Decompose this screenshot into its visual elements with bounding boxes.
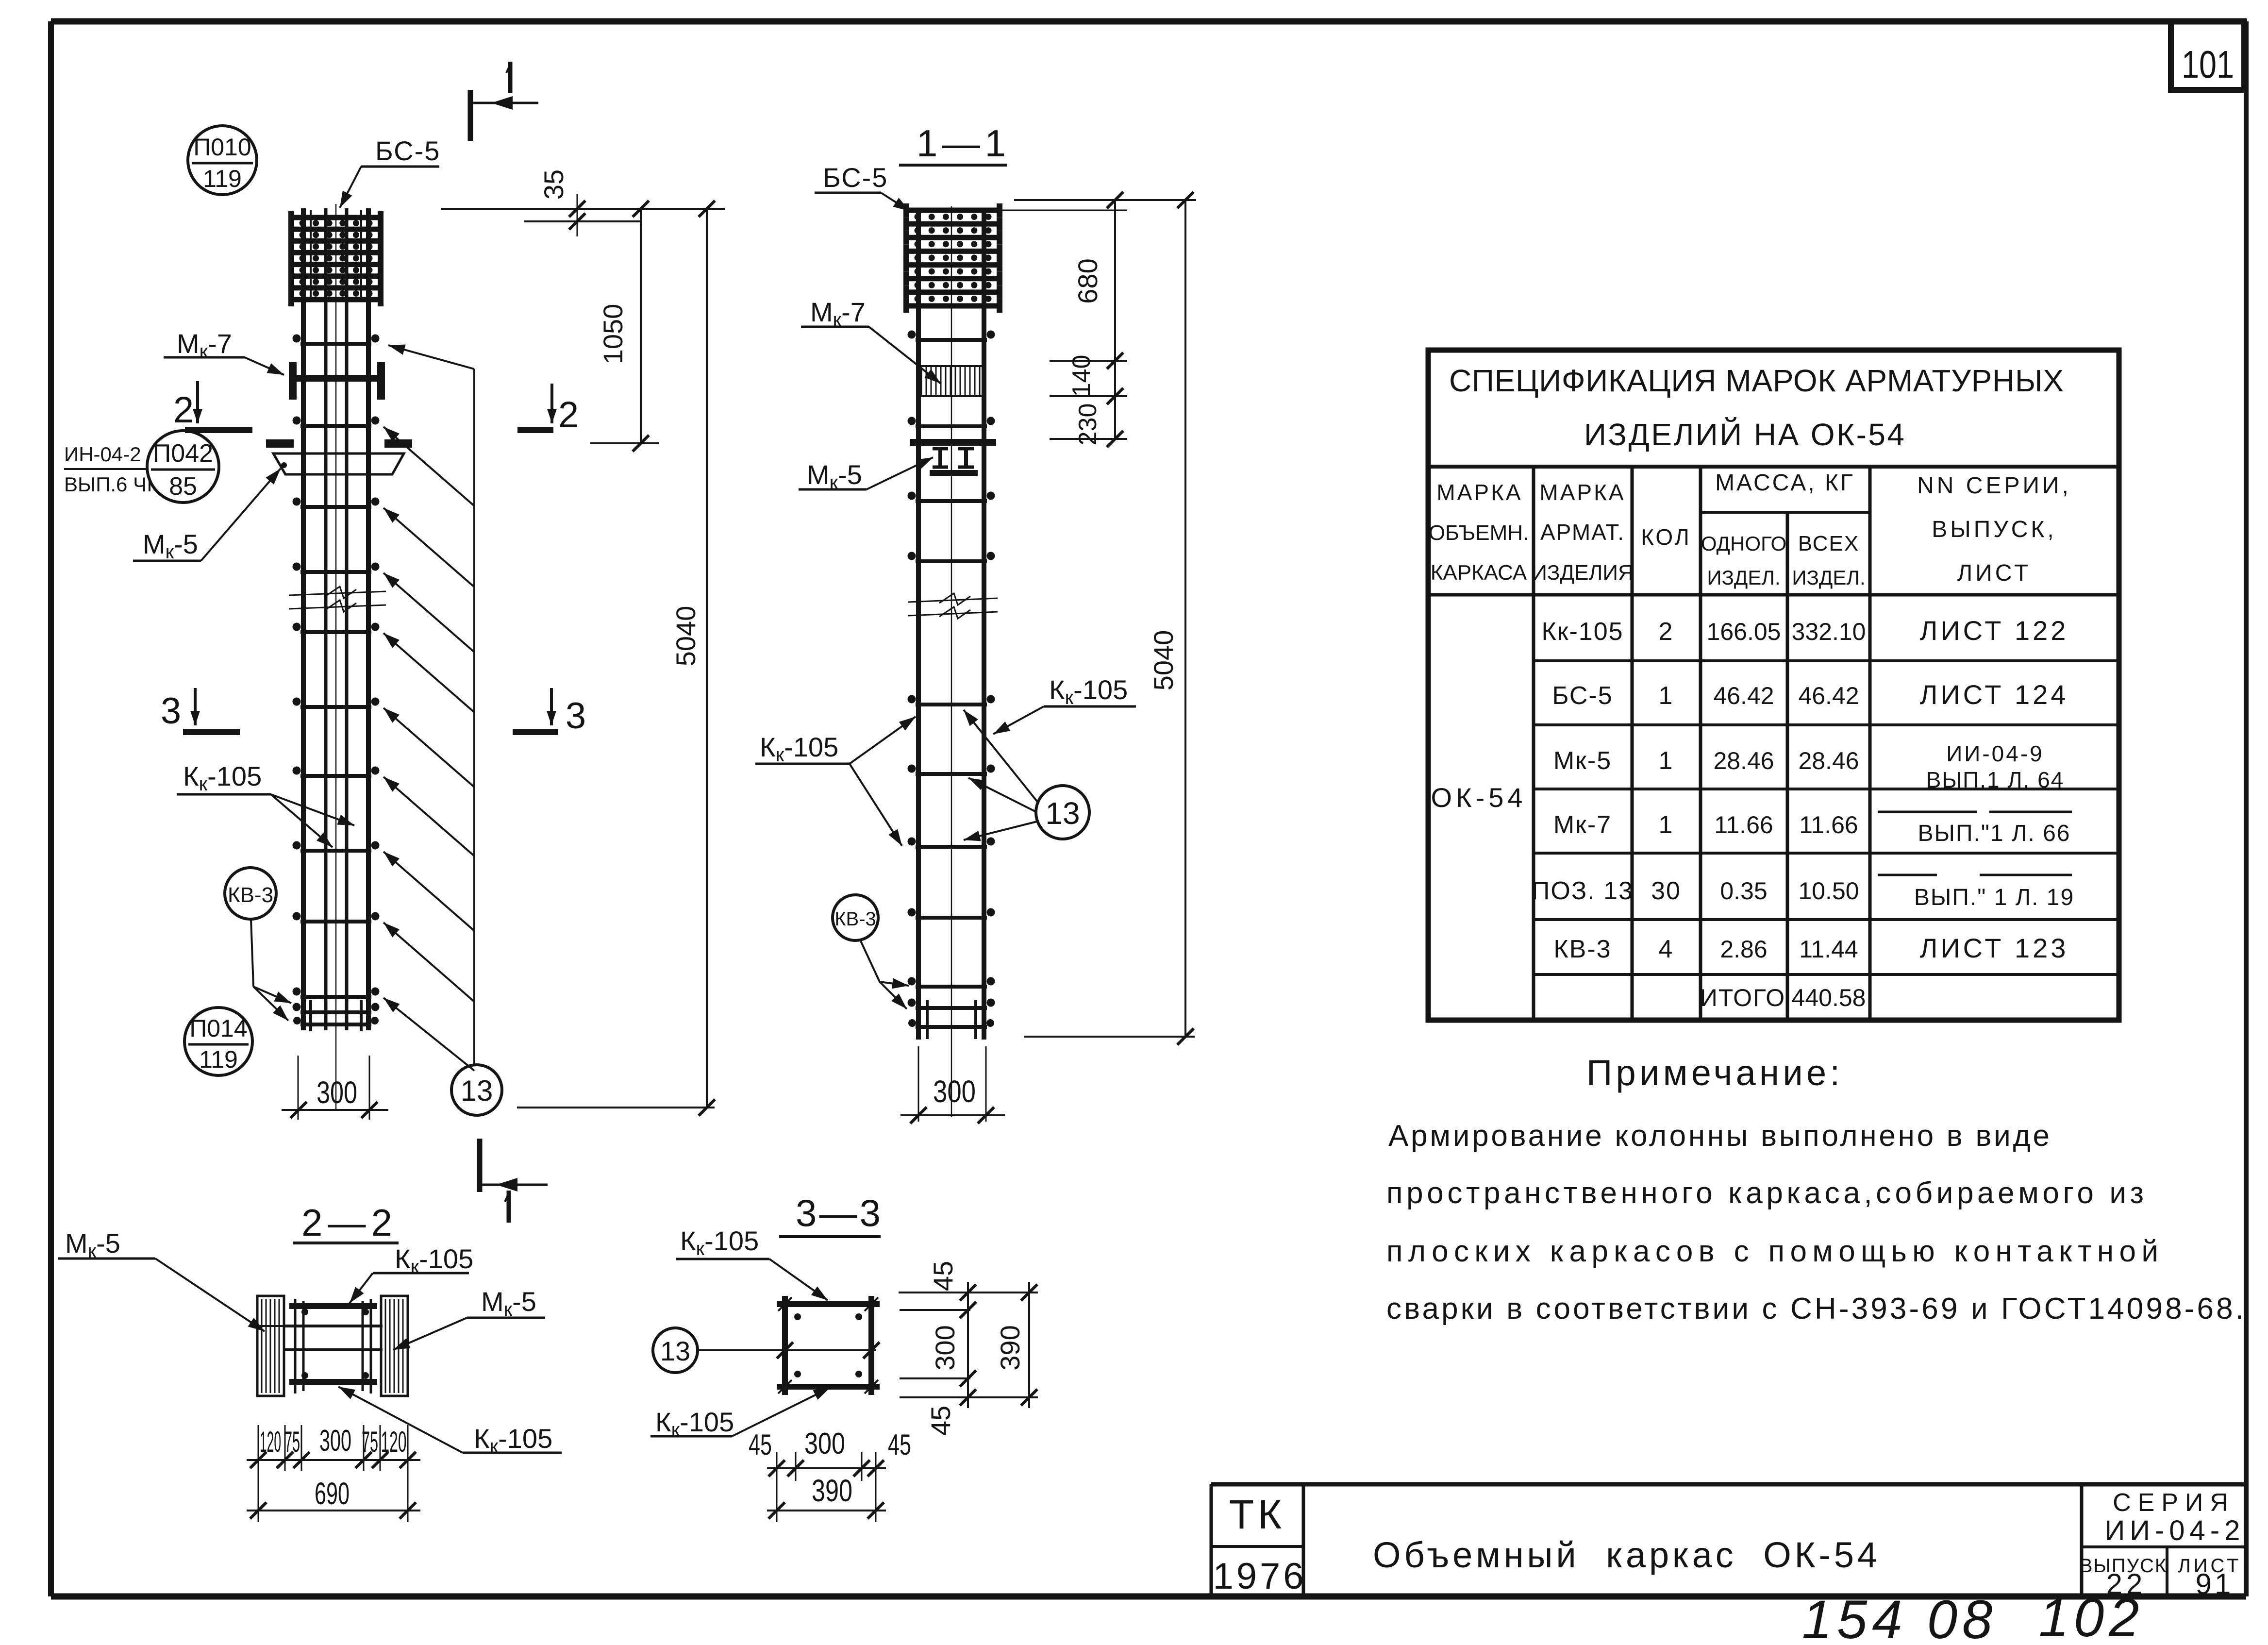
- svg-text:102: 102: [2039, 1587, 2144, 1645]
- svg-text:ЛИСТ 124: ЛИСТ 124: [1920, 679, 2069, 710]
- svg-text:Кк-105: Кк-105: [760, 732, 838, 766]
- svg-text:пространственного каркаса,соб: пространственного каркаса,собираемого из: [1386, 1176, 2148, 1210]
- svg-text:БС-5: БС-5: [375, 135, 440, 166]
- svg-text:Мк-7: Мк-7: [1553, 811, 1612, 839]
- svg-text:сварки в соответствии с СН: сварки в соответствии с СН-393-69 и ГОСТ…: [1386, 1292, 2247, 1326]
- svg-text:ЛИСТ 123: ЛИСТ 123: [1920, 933, 2069, 963]
- svg-text:ТК: ТК: [1229, 1492, 1285, 1537]
- svg-text:0.35: 0.35: [1720, 877, 1767, 905]
- svg-text:300: 300: [930, 1325, 960, 1370]
- svg-text:35: 35: [538, 169, 569, 200]
- svg-text:МАРКА: МАРКА: [1539, 480, 1625, 505]
- svg-text:5040: 5040: [670, 606, 701, 667]
- svg-text:П010: П010: [193, 134, 251, 161]
- svg-text:2: 2: [558, 394, 579, 436]
- svg-text:П042: П042: [153, 439, 213, 468]
- svg-text:Кк-105: Кк-105: [1049, 674, 1128, 708]
- svg-text:45: 45: [888, 1428, 911, 1461]
- svg-text:ВЫПУСК,: ВЫПУСК,: [1932, 517, 2056, 542]
- svg-text:Армирование колонны выполнен: Армирование колонны выполнено в виде: [1388, 1119, 2053, 1153]
- svg-text:11.66: 11.66: [1714, 811, 1773, 839]
- svg-text:332.10: 332.10: [1792, 618, 1866, 645]
- svg-text:45: 45: [928, 1261, 958, 1291]
- svg-text:ИЗДЕЛ.: ИЗДЕЛ.: [1707, 566, 1780, 589]
- svg-text:Кк-105: Кк-105: [183, 761, 262, 795]
- svg-text:ЛИСТ: ЛИСТ: [1957, 560, 2031, 586]
- svg-text:13: 13: [660, 1336, 690, 1366]
- svg-text:СПЕЦИФИКАЦИЯ МАРОК АРМАТУРНЫ: СПЕЦИФИКАЦИЯ МАРОК АРМАТУРНЫХ: [1449, 363, 2069, 398]
- svg-text:91: 91: [2196, 1568, 2234, 1600]
- svg-text:КОЛ: КОЛ: [1641, 524, 1691, 550]
- svg-text:2.86: 2.86: [1720, 936, 1767, 963]
- svg-text:ЛИСТ 122: ЛИСТ 122: [1920, 615, 2069, 646]
- svg-text:11.44: 11.44: [1799, 936, 1858, 963]
- svg-text:680: 680: [1072, 258, 1103, 303]
- svg-text:ВЫП." 1 Л. 19: ВЫП." 1 Л. 19: [1914, 885, 2074, 910]
- svg-text:ВСЕХ: ВСЕХ: [1798, 532, 1859, 555]
- svg-text:119: 119: [203, 165, 242, 192]
- svg-text:30: 30: [1651, 877, 1681, 905]
- svg-text:45: 45: [925, 1406, 956, 1436]
- svg-text:120: 120: [381, 1426, 407, 1458]
- svg-text:МАРКА: МАРКА: [1436, 480, 1522, 505]
- svg-text:3: 3: [161, 690, 181, 732]
- svg-text:ВЫП."1 Л. 66: ВЫП."1 Л. 66: [1918, 821, 2071, 846]
- svg-text:NN СЕРИИ,: NN СЕРИИ,: [1917, 473, 2071, 499]
- svg-text:300: 300: [933, 1074, 976, 1109]
- svg-text:120: 120: [260, 1426, 281, 1458]
- svg-text:46.42: 46.42: [1713, 682, 1774, 709]
- svg-text:БС-5: БС-5: [1552, 682, 1613, 710]
- svg-text:КВ-3: КВ-3: [1553, 935, 1611, 963]
- svg-text:10.50: 10.50: [1798, 877, 1859, 905]
- svg-text:ПОЗ. 13: ПОЗ. 13: [1532, 877, 1634, 905]
- svg-text:Примечание:: Примечание:: [1586, 1053, 1847, 1093]
- svg-text:ИИ-04-2: ИИ-04-2: [2105, 1515, 2245, 1546]
- svg-text:119: 119: [199, 1046, 238, 1073]
- svg-text:28.46: 28.46: [1798, 747, 1859, 774]
- svg-text:ОК-54: ОК-54: [1431, 782, 1526, 813]
- svg-text:Кк-105: Кк-105: [1541, 618, 1623, 646]
- svg-text:11.66: 11.66: [1799, 811, 1858, 839]
- svg-text:ИН-04-2: ИН-04-2: [64, 443, 141, 466]
- svg-text:ВЫП.1 Л. 64: ВЫП.1 Л. 64: [1926, 767, 2065, 792]
- svg-text:КАРКАСА: КАРКАСА: [1431, 561, 1527, 585]
- svg-text:АРМАТ.: АРМАТ.: [1540, 520, 1625, 545]
- svg-text:ИИ-04-9: ИИ-04-9: [1946, 741, 2044, 766]
- svg-text:плоских каркасов с помощью: плоских каркасов с помощью контактной: [1386, 1235, 2162, 1268]
- svg-text:ИЗДЕЛ.: ИЗДЕЛ.: [1792, 566, 1865, 589]
- svg-text:440.58: 440.58: [1792, 984, 1866, 1011]
- svg-text:154 08: 154 08: [1802, 1589, 1998, 1645]
- svg-text:2 — 2: 2 — 2: [301, 1201, 392, 1244]
- svg-text:75: 75: [284, 1426, 300, 1458]
- svg-text:1050: 1050: [598, 304, 628, 365]
- svg-text:300: 300: [319, 1424, 351, 1458]
- svg-text:БС-5: БС-5: [823, 162, 888, 193]
- svg-text:3: 3: [566, 695, 586, 737]
- svg-text:3 — 3: 3 — 3: [796, 1192, 881, 1234]
- svg-text:1: 1: [1659, 747, 1674, 775]
- svg-text:75: 75: [362, 1426, 378, 1458]
- svg-text:390: 390: [812, 1473, 852, 1508]
- svg-text:2: 2: [173, 389, 194, 431]
- svg-text:230: 230: [1074, 403, 1102, 446]
- svg-text:1976: 1976: [1213, 1556, 1306, 1597]
- svg-text:1: 1: [1659, 811, 1674, 839]
- svg-text:101: 101: [2182, 43, 2234, 86]
- svg-text:1: 1: [1659, 682, 1674, 710]
- svg-text:1 — 1: 1 — 1: [917, 122, 1006, 165]
- svg-text:КВ-3: КВ-3: [228, 883, 273, 907]
- svg-text:СЕРИЯ: СЕРИЯ: [2113, 1489, 2235, 1517]
- svg-text:4: 4: [1659, 935, 1674, 963]
- svg-text:140: 140: [1067, 355, 1096, 397]
- svg-text:ВЫП.6 ЧI: ВЫП.6 ЧI: [64, 473, 152, 496]
- svg-text:КВ-3: КВ-3: [834, 908, 876, 930]
- svg-text:300: 300: [804, 1427, 845, 1460]
- svg-text:ИЗДЕЛИЙ НА ОК-54: ИЗДЕЛИЙ НА ОК-54: [1584, 417, 1910, 452]
- svg-text:13: 13: [461, 1074, 493, 1107]
- svg-text:Объемный каркас ОК-54: Объемный каркас ОК-54: [1373, 1535, 1885, 1575]
- svg-text:ОБЪЕМН.: ОБЪЕМН.: [1429, 521, 1529, 545]
- svg-text:ИТОГО: ИТОГО: [1700, 984, 1785, 1011]
- svg-text:П014: П014: [189, 1015, 247, 1042]
- svg-text:85: 85: [169, 472, 197, 501]
- svg-text:5040: 5040: [1148, 630, 1179, 691]
- svg-text:Кк-105: Кк-105: [680, 1225, 759, 1259]
- svg-text:2: 2: [1659, 618, 1674, 646]
- svg-text:46.42: 46.42: [1798, 682, 1859, 709]
- svg-text:Мк-5: Мк-5: [1553, 747, 1612, 775]
- svg-text:166.05: 166.05: [1707, 618, 1781, 645]
- svg-text:45: 45: [749, 1428, 772, 1461]
- svg-text:28.46: 28.46: [1713, 747, 1774, 774]
- svg-text:ИЗДЕЛИЯ: ИЗДЕЛИЯ: [1532, 561, 1634, 585]
- svg-text:ОДНОГО: ОДНОГО: [1701, 532, 1786, 555]
- svg-text:690: 690: [315, 1476, 350, 1511]
- svg-text:МАССА, КГ: МАССА, КГ: [1715, 470, 1855, 496]
- svg-text:300: 300: [317, 1075, 357, 1110]
- svg-text:390: 390: [995, 1325, 1025, 1370]
- svg-text:13: 13: [1045, 796, 1080, 831]
